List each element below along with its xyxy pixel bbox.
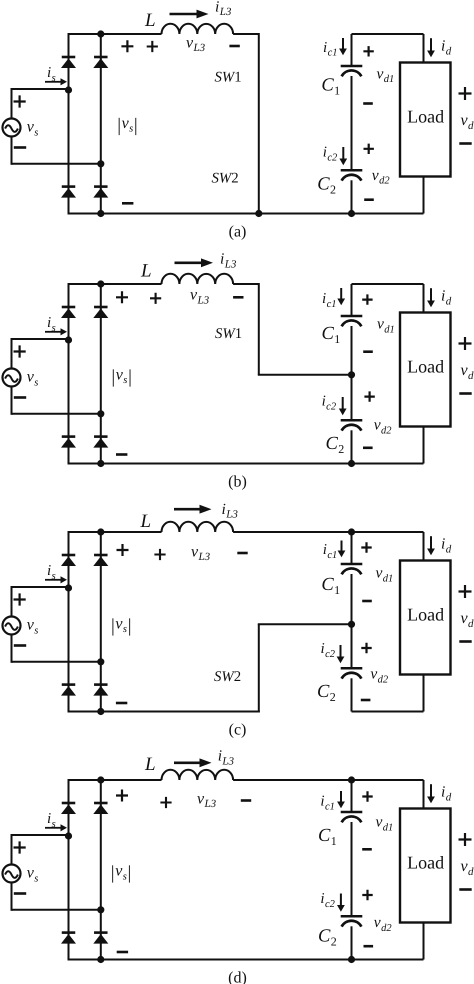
svg-text:C: C (322, 324, 335, 344)
svg-text:s: s (34, 377, 38, 388)
wire: source bottom lead (12, 661, 101, 663)
svg-text:s: s (52, 323, 56, 334)
svg-text:v: v (377, 316, 384, 333)
wire: capacitor column lower segment (351, 430, 353, 463)
svg-text:i: i (47, 65, 51, 81)
label + (vd2) (364, 144, 374, 154)
wire: bridge left column (68, 779, 70, 961)
wire: top rail left of inductor (69, 531, 162, 533)
ac source vs (3, 369, 21, 387)
label + (vd) (459, 833, 472, 846)
svg-text:d: d (446, 791, 452, 803)
node: bridge top right junction (97, 528, 104, 535)
label + (source) (14, 95, 26, 107)
wire: load top drop (423, 780, 425, 809)
svg-text:C: C (317, 682, 330, 702)
wire: capacitor column upper segment (351, 34, 353, 65)
node: capacitor column bottom junction (348, 210, 355, 217)
node: source- to right leg junction (97, 410, 104, 417)
svg-text:1: 1 (334, 83, 340, 97)
svg-text:Load: Load (407, 852, 444, 872)
capacitor C1 (341, 315, 363, 318)
node: bridge top right junction (97, 776, 104, 783)
svg-text:Load: Load (407, 106, 444, 126)
label - (vd) (459, 888, 471, 891)
svg-text:v: v (370, 666, 377, 683)
svg-text:C: C (321, 575, 334, 595)
svg-text:d1: d1 (384, 74, 395, 85)
wire: bridge left column (68, 283, 70, 465)
svg-text:i: i (218, 748, 222, 765)
node: source+ to left leg junction (65, 584, 72, 591)
svg-text:|: | (128, 367, 132, 388)
diode D1 (bridge upper-left) (62, 802, 76, 805)
svg-text:i: i (322, 291, 326, 307)
wire: source bottom lead (12, 909, 101, 911)
svg-text:|: | (128, 616, 132, 637)
svg-text:2: 2 (330, 690, 336, 704)
svg-text:L3: L3 (193, 42, 206, 54)
wire: top rail from inductor to load drop (233, 531, 423, 533)
svg-text:Load: Load (407, 356, 444, 376)
svg-text:d2: d2 (381, 923, 392, 934)
svg-text:2: 2 (338, 442, 344, 456)
load box (400, 313, 451, 427)
label - (bridge output) (116, 453, 127, 456)
svg-text:i: i (323, 145, 327, 161)
node: bridge top right junction (97, 280, 104, 287)
svg-text:L: L (144, 10, 156, 31)
svg-text:d: d (446, 45, 452, 57)
svg-text:L3: L3 (197, 294, 210, 306)
current arrow ic1 (340, 791, 342, 802)
wire: bridge right column (100, 34, 102, 214)
label - (vd2) (361, 699, 371, 702)
svg-text:i: i (441, 38, 445, 55)
wire: source left vertical (11, 586, 13, 663)
wire: top rail from inductor to switch leg (233, 283, 259, 285)
current arrow is (45, 331, 61, 333)
label + (vd1) (361, 542, 371, 552)
diode D2 (bridge upper-right) (94, 56, 108, 59)
capacitor C2 (341, 915, 363, 918)
diode D4 (bridge lower-right) (94, 435, 108, 438)
svg-text:i: i (441, 536, 445, 553)
svg-text:i: i (323, 40, 327, 56)
wire: source top lead (12, 586, 69, 588)
svg-text:v: v (377, 65, 384, 82)
svg-text:d: d (468, 370, 474, 382)
svg-text:C: C (326, 434, 339, 454)
svg-text:L3: L3 (204, 798, 217, 810)
node: source- to right leg junction (97, 906, 104, 913)
capacitor C1 (341, 811, 363, 814)
label - (vd) (459, 640, 471, 643)
wire: bridge left column (68, 33, 70, 215)
label + (vd2) (361, 643, 371, 653)
current arrow iL3 (174, 508, 200, 511)
wire: load top drop (423, 532, 425, 561)
svg-text:(b): (b) (228, 473, 247, 490)
wire: horizontal from switch leg to capacitor midpoint (258, 623, 352, 625)
svg-text:i: i (322, 394, 326, 410)
svg-text:d1: d1 (383, 822, 394, 833)
capacitor C2 (341, 169, 363, 172)
label - (vd1) (362, 600, 372, 603)
capacitor C2 (341, 419, 363, 422)
node: bridge bottom right junction (97, 210, 104, 217)
current arrow id (430, 536, 432, 548)
wire: source left vertical (11, 338, 13, 415)
wire: capacitor top wire to load (352, 33, 424, 35)
diode D3 (bridge lower-left) (62, 683, 76, 686)
svg-text:c2: c2 (326, 401, 337, 412)
svg-text:1: 1 (334, 583, 340, 597)
capacitor C1 (341, 563, 363, 566)
wire: top rail from inductor to load drop (233, 779, 423, 781)
ac source vs (3, 865, 21, 883)
svg-text:L3: L3 (198, 551, 211, 563)
wire: load top drop (423, 284, 425, 313)
load box (400, 809, 451, 923)
label - (vd) (459, 392, 471, 395)
inductor L (162, 522, 234, 532)
label + (vd1) (362, 791, 372, 801)
svg-text:SW2: SW2 (214, 669, 241, 685)
current arrow iL3 (170, 13, 197, 16)
label - (vd1) (362, 848, 372, 851)
current arrow id (430, 288, 432, 300)
svg-text:d: d (446, 295, 452, 307)
wire: bridge right column (100, 284, 102, 464)
label + (vd2) (362, 890, 372, 900)
svg-text:(c): (c) (229, 721, 247, 738)
diode D3 (bridge lower-left) (62, 185, 76, 188)
wire: source left vertical (11, 834, 13, 911)
current arrow ic1 (342, 38, 344, 49)
svg-text:c1: c1 (325, 801, 335, 812)
current arrow is (45, 827, 61, 829)
label - (vL3) (233, 296, 243, 299)
svg-text:s: s (123, 871, 127, 882)
label - (source) (14, 892, 26, 895)
svg-text:|: | (117, 115, 121, 136)
svg-text:i: i (320, 891, 324, 907)
label - (bridge output) (117, 951, 128, 954)
label - (source) (14, 644, 26, 647)
svg-text:d2: d2 (379, 176, 390, 187)
svg-text:s: s (52, 73, 56, 84)
wire: bottom rail (69, 959, 424, 961)
svg-text:(a): (a) (229, 223, 247, 240)
node: source- to right leg junction (97, 160, 104, 167)
wire: bottom rail (69, 213, 424, 215)
svg-text:d2: d2 (381, 425, 392, 436)
svg-text:c1: c1 (327, 550, 337, 561)
svg-text:(d): (d) (228, 969, 247, 984)
current arrow is (45, 81, 61, 83)
svg-text:SW1: SW1 (215, 69, 242, 85)
svg-text:s: s (52, 571, 56, 582)
label + (vL3) (154, 549, 165, 560)
diode D4 (bridge lower-right) (94, 931, 108, 934)
wire: horizontal to capacitor midpoint (258, 374, 352, 376)
label + (vd2) (364, 391, 374, 401)
svg-text:c1: c1 (328, 48, 338, 59)
svg-text:i: i (47, 563, 51, 579)
current arrow ic2 (340, 645, 342, 657)
svg-text:L: L (140, 511, 152, 532)
capacitor C1 (341, 65, 363, 68)
wire: capacitor column lower segment (351, 926, 353, 959)
wire: bridge left column (68, 531, 70, 713)
load box (400, 561, 451, 675)
svg-text:v: v (376, 565, 383, 582)
svg-text:v: v (372, 167, 379, 184)
label + (bridge output) (116, 790, 128, 802)
svg-text:c1: c1 (327, 299, 337, 310)
label - (vd2) (363, 446, 373, 449)
current arrow iL3 (175, 261, 202, 264)
svg-text:C: C (318, 927, 331, 947)
diode D1 (bridge upper-left) (62, 56, 76, 59)
svg-text:i: i (441, 784, 445, 801)
diode D1 (bridge upper-left) (62, 554, 76, 557)
inductor L (162, 274, 234, 284)
current arrow is (45, 579, 61, 581)
wire: top rail left of inductor (69, 283, 162, 285)
svg-text:C: C (318, 826, 331, 846)
current arrow ic2 (342, 147, 344, 159)
svg-text:s: s (123, 624, 127, 635)
wire: capacitor column lower segment (351, 678, 353, 711)
svg-text:d1: d1 (383, 573, 394, 584)
svg-text:i: i (47, 315, 51, 331)
wire: top rail left of inductor (69, 33, 162, 35)
wire: top rail from inductor to switch leg (233, 33, 259, 35)
node: capacitor midpoint junction (348, 621, 355, 628)
svg-text:1: 1 (334, 332, 340, 346)
node: source+ to left leg junction (65, 832, 72, 839)
svg-text:i: i (220, 251, 224, 268)
label - (vL3) (229, 45, 239, 48)
node: bridge bottom right junction (97, 708, 104, 715)
label + (vL3) (160, 797, 171, 808)
svg-text:i: i (320, 794, 324, 810)
label - (vd2) (364, 945, 374, 948)
wire: top rail left of inductor (69, 779, 162, 781)
wire: bottom rail from bridge to switch leg (69, 711, 260, 713)
label - (bridge output) (116, 702, 127, 705)
label - (vd) (459, 142, 471, 145)
node: bridge bottom right junction (97, 956, 104, 963)
node: bridge top right junction (97, 30, 104, 37)
label + (bridge output) (117, 544, 129, 556)
node: source+ to left leg junction (65, 336, 72, 343)
svg-text:s: s (123, 375, 127, 386)
node: bridge bottom right junction (97, 460, 104, 467)
svg-text:v: v (376, 814, 383, 831)
wire: load top drop (423, 34, 425, 63)
wire: capacitor top wire to load (352, 283, 424, 285)
wire: switch-leg vertical down to bottom rail (258, 624, 260, 712)
svg-text:d: d (468, 618, 474, 630)
svg-text:L3: L3 (221, 755, 234, 767)
svg-text:SW1: SW1 (215, 326, 242, 342)
label - (source) (14, 396, 26, 399)
svg-text:s: s (129, 124, 133, 135)
wire: capacitor column middle segment (351, 822, 353, 915)
wire: source bottom lead (12, 163, 101, 165)
diode D2 (bridge upper-right) (94, 554, 108, 557)
svg-text:i: i (222, 501, 226, 518)
svg-text:v: v (374, 417, 381, 434)
node: capacitor column top junction (348, 776, 355, 783)
svg-text:L: L (144, 754, 156, 775)
wire: capacitor column upper segment (351, 780, 353, 811)
svg-text:d: d (468, 866, 474, 878)
svg-text:C: C (317, 175, 330, 195)
label + (vd1) (363, 46, 373, 56)
svg-text:1: 1 (331, 834, 337, 848)
wire: source top lead (12, 338, 69, 340)
node: capacitor column bottom junction (348, 460, 355, 467)
node: capacitor column bottom junction (348, 956, 355, 963)
wire: switch-leg vertical down to midpoint level (258, 283, 260, 375)
current arrow ic2 (342, 397, 344, 409)
svg-text:d: d (446, 543, 452, 555)
wire: source top lead (12, 834, 69, 836)
svg-text:i: i (215, 0, 219, 15)
label - (vL3) (241, 799, 251, 802)
label - (vL3) (237, 552, 247, 555)
label - (vd1) (363, 102, 373, 105)
svg-text:v: v (374, 914, 381, 931)
node: capacitor column top junction (348, 528, 355, 535)
svg-text:i: i (323, 542, 327, 558)
svg-text:L3: L3 (219, 6, 232, 18)
label - (bridge output) (122, 202, 133, 205)
current arrow id (430, 38, 432, 50)
svg-text:c2: c2 (325, 649, 336, 660)
label + (vd) (459, 337, 472, 350)
label + (source) (14, 345, 26, 357)
label + (vL3) (150, 293, 161, 304)
label + (bridge output) (121, 40, 133, 52)
svg-text:s: s (52, 819, 56, 830)
current arrow iL3 (174, 761, 200, 764)
wire: load bottom drop (423, 675, 425, 712)
label - (source) (14, 146, 26, 149)
node: switch leg to bottom rail junction (255, 210, 262, 217)
label + (source) (14, 593, 26, 605)
svg-text:i: i (47, 811, 51, 827)
inductor L (162, 24, 234, 34)
diode D2 (bridge upper-right) (94, 802, 108, 805)
wire: capacitor column middle segment (351, 326, 353, 419)
wire: source left vertical (11, 88, 13, 165)
wire: bridge right column (100, 780, 102, 960)
svg-text:s: s (34, 127, 38, 138)
diode D3 (bridge lower-left) (62, 435, 76, 438)
svg-text:C: C (321, 76, 334, 96)
svg-text:|: | (134, 115, 138, 136)
node: source- to right leg junction (97, 658, 104, 665)
svg-text:SW2: SW2 (212, 171, 239, 187)
diode D3 (bridge lower-left) (62, 931, 76, 934)
ac source vs (3, 119, 21, 137)
svg-text:L: L (140, 261, 152, 282)
label + (bridge output) (116, 291, 128, 303)
current arrow ic2 (340, 894, 342, 906)
wire: capacitor column middle segment (351, 574, 353, 667)
svg-text:d: d (468, 120, 474, 132)
svg-text:|: | (111, 863, 115, 884)
wire: capacitor column middle segment (351, 76, 353, 169)
wire: source bottom lead (12, 413, 101, 415)
wire: bottom wire from capacitor column to load (352, 711, 424, 713)
wire: switch-leg vertical (SW1/SW2 branch) (258, 33, 260, 214)
wire: bottom rail (69, 463, 424, 465)
svg-text:i: i (321, 641, 325, 657)
diode D1 (bridge upper-left) (62, 306, 76, 309)
svg-text:|: | (111, 616, 115, 637)
label - (vd1) (363, 350, 373, 353)
svg-text:|: | (128, 863, 132, 884)
node: capacitor midpoint junction (348, 371, 355, 378)
wire: load bottom drop (423, 923, 425, 960)
svg-text:L3: L3 (224, 258, 237, 270)
svg-text:2: 2 (331, 934, 337, 948)
node: source+ to left leg junction (65, 86, 72, 93)
svg-text:c2: c2 (325, 899, 336, 910)
current arrow ic1 (340, 288, 342, 299)
inductor L (162, 770, 234, 780)
svg-text:L3: L3 (225, 509, 238, 521)
wire: capacitor column upper segment (351, 532, 353, 563)
label - (vd2) (364, 198, 374, 201)
diode D2 (bridge upper-right) (94, 306, 108, 309)
label + (vL3) (147, 41, 158, 52)
capacitor C2 (341, 667, 363, 670)
svg-text:s: s (34, 625, 38, 636)
label + (vd) (459, 87, 472, 100)
current arrow id (430, 784, 432, 796)
svg-text:d1: d1 (384, 324, 395, 335)
wire: source top lead (12, 88, 69, 90)
svg-text:2: 2 (330, 182, 336, 196)
ac source vs (3, 617, 21, 635)
wire: bridge right column (100, 532, 102, 712)
svg-text:d2: d2 (378, 674, 389, 685)
wire: load bottom drop (423, 177, 425, 214)
svg-text:|: | (111, 367, 115, 388)
wire: load bottom drop (423, 427, 425, 464)
svg-text:c2: c2 (327, 153, 338, 164)
diode D4 (bridge lower-right) (94, 683, 108, 686)
svg-text:s: s (34, 873, 38, 884)
load box (400, 63, 451, 177)
diode D4 (bridge lower-right) (94, 185, 108, 188)
label + (vd1) (362, 294, 372, 304)
current arrow ic1 (341, 541, 343, 551)
svg-text:Load: Load (407, 604, 444, 624)
wire: capacitor column lower segment (351, 180, 353, 213)
label + (vd) (459, 585, 472, 598)
wire: capacitor column upper segment (351, 284, 353, 315)
label + (source) (14, 841, 26, 853)
svg-text:i: i (441, 288, 445, 305)
